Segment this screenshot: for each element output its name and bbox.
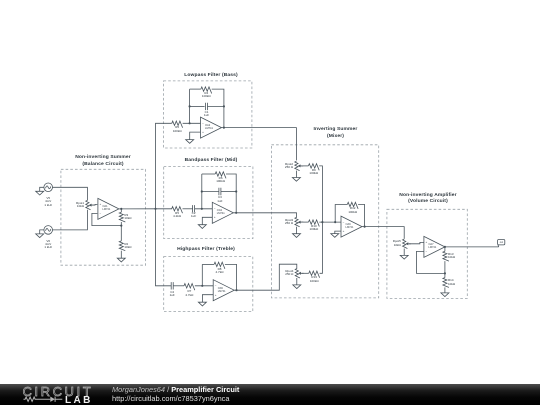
title: Bandpass Filter (Mid): [156, 159, 266, 164]
ground at OA3 +: [198, 225, 206, 229]
op-amp OA7 pin marks and label: [404, 241, 448, 244]
resistor R3: [119, 212, 125, 222]
dashed box: volume circuit: [387, 209, 467, 298]
dashed box: bandpass filter: [164, 166, 253, 238]
title: Non-Inverting Amplifier (Volume Circuit): [373, 194, 483, 199]
node signal distribution junction: [154, 208, 156, 210]
ground below Rpot2: [292, 178, 300, 182]
label R9 100k: [292, 169, 336, 172]
node C3 right junction: [235, 190, 237, 192]
wire R3 to R2: [120, 222, 122, 241]
capacitor C3: [219, 188, 221, 195]
node feedback tap: [334, 221, 336, 223]
node OA7 output junction: [444, 246, 446, 248]
label R13 100k: [292, 276, 336, 279]
wire Rpot3 to ground: [296, 227, 298, 234]
dashed box: highpass filter: [164, 257, 253, 312]
wire Rpot4 to ground: [296, 278, 298, 285]
wire to C3 left plate: [202, 191, 219, 193]
wire C4 to R7: [173, 285, 184, 287]
wire feedback up to R12: [335, 205, 347, 223]
wire up to feedback: [189, 89, 191, 123]
wire branch to bandpass input: [156, 208, 173, 210]
label V6 frequency: [26, 246, 70, 249]
resistor R10: [309, 220, 320, 227]
node OA1 output junction: [120, 208, 122, 210]
label Rpot3 250: [249, 219, 293, 222]
label R5 4.2k: [155, 212, 199, 215]
wire R10 to OA6 -: [319, 221, 341, 223]
CircuitLab logo word LAB: [65, 396, 93, 405]
op-amp OA7: [424, 236, 445, 257]
wire R5 to OA2 -: [183, 122, 201, 124]
label R15 10k: [448, 253, 492, 256]
node lowpass summing junction: [189, 122, 191, 124]
resistor R9: [308, 164, 319, 171]
title: Inverting Summer (Mixer): [281, 128, 391, 133]
resistor R5 (bandpass input): [172, 207, 183, 214]
wire output to R3: [120, 209, 122, 212]
op-amp OA3: [212, 202, 233, 223]
wire R11 to C2: [183, 208, 193, 210]
wire up to bandpass feedback: [201, 174, 203, 209]
wire R4 right down to output: [212, 89, 224, 128]
label Rpot1 10k: [40, 202, 84, 205]
wire V5 to ground: [40, 187, 44, 191]
wire C3 right plate to output branch: [221, 191, 236, 193]
node C1 left junction: [189, 105, 191, 107]
label Rpot4 250: [249, 270, 293, 273]
wire OA2 + to ground: [190, 132, 201, 140]
CircuitLab logo word CIRCUIT: [23, 386, 94, 398]
credit text: [112, 386, 239, 403]
label V5 frequency: [26, 204, 70, 207]
wire V6 to ground: [40, 230, 44, 234]
op-amp OA5 pin marks and label: [194, 284, 238, 287]
wire output down to R15: [444, 247, 446, 251]
ground at OA2 +: [186, 140, 194, 144]
potentiometer Rpot4: [295, 269, 300, 278]
node highpass summing junction: [201, 285, 203, 287]
wire branch down to highpass input: [156, 209, 172, 286]
node OA6 output junction: [364, 226, 366, 228]
resistor R2: [119, 241, 125, 251]
label V6 value: [26, 240, 70, 243]
wire Rpot1 wiper to op-amp +: [91, 203, 97, 206]
resistor R5: [172, 121, 183, 128]
logo diode: [50, 397, 55, 402]
node OA5 output junction: [235, 289, 237, 291]
wire OA5 output to mixer Rpot4: [234, 264, 297, 290]
voltage source V5: [44, 183, 53, 192]
wire R13 to summing line lower: [320, 222, 323, 273]
wire C2 to OA3 -: [195, 208, 213, 210]
label C1 1uF: [185, 111, 229, 114]
ground at V5: [36, 191, 44, 195]
label R8 4.7k: [198, 268, 242, 271]
node summing junction: [321, 221, 323, 223]
wire Rpot2 wiper to R9: [301, 165, 308, 167]
voltage source V6: [44, 226, 53, 235]
wire OA7 output to terminal: [445, 246, 499, 248]
ground below Rpot3: [293, 234, 301, 238]
label R12 100k: [331, 207, 375, 210]
ground at OA5 +: [198, 302, 206, 306]
wire OA6 + to ground: [335, 231, 341, 234]
wire OA1 output: [119, 208, 156, 210]
node feedback junction: [120, 225, 122, 227]
wire R7 to OA5 -: [195, 285, 213, 287]
wire feedback to OA7 -: [417, 251, 445, 273]
label R10 100k: [292, 225, 336, 228]
potentiometer Rpot5: [403, 239, 408, 248]
node OA2 output junction: [223, 127, 225, 129]
label R14 10k: [448, 279, 492, 282]
wire OA3 + to ground: [202, 217, 212, 224]
label Rpot2 250: [249, 163, 293, 166]
dashed box: balance circuit: [61, 169, 146, 265]
footer bar: [0, 384, 540, 405]
op-amp OA2: [201, 117, 222, 138]
wire branch up to lowpass input: [156, 123, 172, 209]
ground below R2: [117, 258, 125, 262]
label C2 1uF: [172, 212, 216, 215]
node bandpass summing junction: [201, 208, 203, 210]
label R2 10k: [124, 243, 168, 246]
wire V5 to Rpot1 top: [53, 187, 88, 200]
dashed box: lowpass filter: [164, 81, 252, 148]
potentiometer Rpot1: [86, 200, 91, 209]
node OA3 output junction: [235, 212, 237, 214]
label Rpot5 10k: [357, 240, 401, 243]
wire to R4 left: [190, 88, 201, 90]
wire Rpot4 wiper to R13: [302, 272, 309, 274]
label R5 100k: [155, 126, 199, 129]
wire Rpot5 wiper to OA7 +: [409, 242, 424, 243]
wire R6 right down to output: [226, 174, 236, 213]
wire Rpot5 to ground: [403, 249, 405, 256]
label R4 100k: [184, 92, 228, 95]
capacitor C1: [206, 103, 208, 110]
logo resistor squiggle: [24, 397, 51, 401]
label R7 4.7k: [167, 290, 211, 293]
potentiometer Rpot2: [295, 161, 300, 170]
resistor R7: [184, 284, 195, 291]
wire to C1 left plate: [190, 105, 205, 107]
wire to R6 left: [202, 173, 215, 175]
title: Highpass Filter (Treble): [151, 248, 261, 253]
wire OA2 output to mixer Rpot2: [222, 128, 297, 161]
title: Lowpass Filter (Bass): [156, 74, 266, 79]
wire R15 to R14: [444, 261, 446, 278]
resistor R14: [443, 278, 449, 288]
capacitor C4: [171, 282, 173, 289]
node C3 left junction: [201, 190, 203, 192]
wire R2 to ground: [120, 251, 122, 259]
label V5 value: [26, 197, 70, 200]
resistor R4: [201, 87, 212, 94]
op-amp OA5: [213, 280, 234, 301]
op-amp OA6: [341, 216, 362, 237]
wire Rpot2 to ground: [295, 171, 297, 178]
label C3 1uF: [198, 196, 242, 199]
node volume feedback junction: [444, 272, 446, 274]
wire V6 to Rpot1 bottom: [53, 210, 88, 230]
wire to R8 left: [202, 263, 214, 265]
wire feedback to OA1 -: [92, 213, 121, 225]
wire R14 to ground: [444, 287, 446, 293]
wire OA5 + to ground: [202, 295, 213, 303]
resistor R13: [309, 271, 320, 278]
resistor R12: [347, 202, 358, 209]
wire OA3 output to mixer Rpot3: [233, 213, 296, 218]
label R3 10k: [124, 214, 168, 217]
dashed box: inverting summer mixer: [271, 145, 378, 298]
wire R12 right down to output: [358, 205, 365, 227]
node C1 right junction: [223, 105, 225, 107]
wire C1 right plate to output branch: [208, 105, 224, 107]
resistor R6: [215, 172, 226, 179]
output terminal flag: [498, 240, 505, 247]
capacitor C2: [193, 205, 195, 212]
title: Non-Inverting Summer (Balance Circuit): [48, 156, 158, 161]
op-amp OA6 pin marks and label: [322, 221, 366, 224]
op-amp OA2 pin marks and label: [181, 122, 225, 125]
op-amp OA3 pin marks and label: [193, 207, 237, 210]
wire R9 to summing line upper: [319, 166, 322, 222]
label C4 1uF: [150, 291, 194, 294]
op-amp OA1: [98, 198, 119, 219]
ground below Rpot4: [293, 285, 301, 289]
ground below Rpot5: [400, 255, 408, 259]
ground at OA6 +: [331, 234, 339, 238]
wire R8 right down to output: [225, 264, 237, 290]
wire Rpot3 wiper to R10: [301, 221, 308, 223]
ground at V6: [36, 234, 44, 238]
label output terminal: [479, 242, 523, 244]
wire up to highpass feedback: [201, 264, 203, 285]
ground below R14: [441, 293, 449, 297]
resistor R15: [443, 251, 449, 261]
label R6 100k: [199, 177, 243, 180]
potentiometer Rpot3: [295, 217, 300, 226]
resistor R8: [214, 262, 225, 269]
op-amp OA1 pin marks and label: [78, 203, 122, 206]
wire OA6 output to volume Rpot5: [362, 227, 404, 239]
